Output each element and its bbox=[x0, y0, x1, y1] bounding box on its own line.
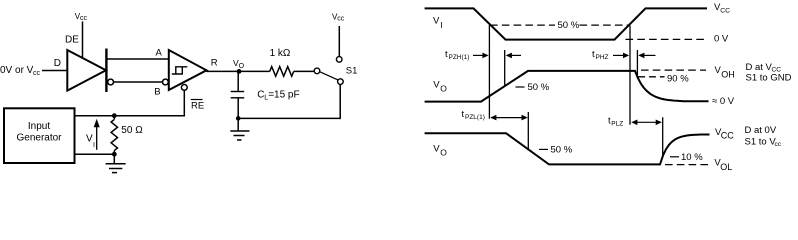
svg-text:V: V bbox=[433, 16, 440, 27]
svg-text:DE: DE bbox=[65, 34, 79, 45]
svg-text:OH: OH bbox=[721, 69, 735, 79]
svg-text:50 Ω: 50 Ω bbox=[121, 125, 143, 136]
svg-text:D at V: D at V bbox=[746, 62, 773, 73]
svg-text:A: A bbox=[156, 48, 163, 59]
svg-text:PZH(1): PZH(1) bbox=[449, 54, 470, 61]
svg-text:O: O bbox=[440, 148, 447, 158]
svg-text:CC: CC bbox=[720, 7, 730, 14]
svg-text:50 %: 50 % bbox=[528, 82, 550, 93]
svg-text:OL: OL bbox=[720, 162, 732, 172]
svg-text:cc: cc bbox=[337, 16, 345, 23]
svg-text:50 %: 50 % bbox=[551, 144, 573, 155]
svg-text:D: D bbox=[54, 58, 61, 69]
svg-text:=15 pF: =15 pF bbox=[268, 90, 299, 101]
svg-text:B: B bbox=[154, 86, 160, 97]
svg-text:S1 to GND: S1 to GND bbox=[746, 72, 792, 83]
svg-text:CC: CC bbox=[721, 131, 734, 141]
svg-text:O: O bbox=[440, 84, 447, 94]
svg-text:PLZ: PLZ bbox=[611, 120, 623, 127]
svg-text:≈ 0 V: ≈ 0 V bbox=[712, 96, 735, 107]
svg-text:S1: S1 bbox=[346, 65, 358, 76]
svg-text:V: V bbox=[86, 133, 93, 144]
svg-text:cc: cc bbox=[33, 70, 41, 77]
svg-text:O: O bbox=[239, 63, 245, 70]
svg-text:RE: RE bbox=[191, 100, 204, 111]
svg-text:PZL(1): PZL(1) bbox=[465, 114, 485, 121]
svg-text:0V or V: 0V or V bbox=[0, 65, 34, 76]
svg-text:D at 0V: D at 0V bbox=[745, 125, 777, 136]
svg-text:cc: cc bbox=[775, 141, 782, 148]
svg-text:0 V: 0 V bbox=[714, 34, 729, 45]
svg-text:cc: cc bbox=[80, 15, 88, 22]
svg-text:Input: Input bbox=[28, 121, 50, 132]
svg-text:PHZ: PHZ bbox=[596, 54, 609, 61]
svg-text:1 kΩ: 1 kΩ bbox=[270, 48, 291, 59]
svg-text:10 %: 10 % bbox=[681, 152, 703, 163]
svg-text:90 %: 90 % bbox=[667, 73, 689, 84]
svg-text:Generator: Generator bbox=[16, 133, 62, 144]
svg-text:R: R bbox=[211, 57, 218, 68]
svg-text:I: I bbox=[93, 142, 95, 149]
svg-text:S1 to V: S1 to V bbox=[745, 136, 777, 147]
svg-text:50 %: 50 % bbox=[558, 20, 580, 31]
svg-text:I: I bbox=[440, 20, 442, 30]
